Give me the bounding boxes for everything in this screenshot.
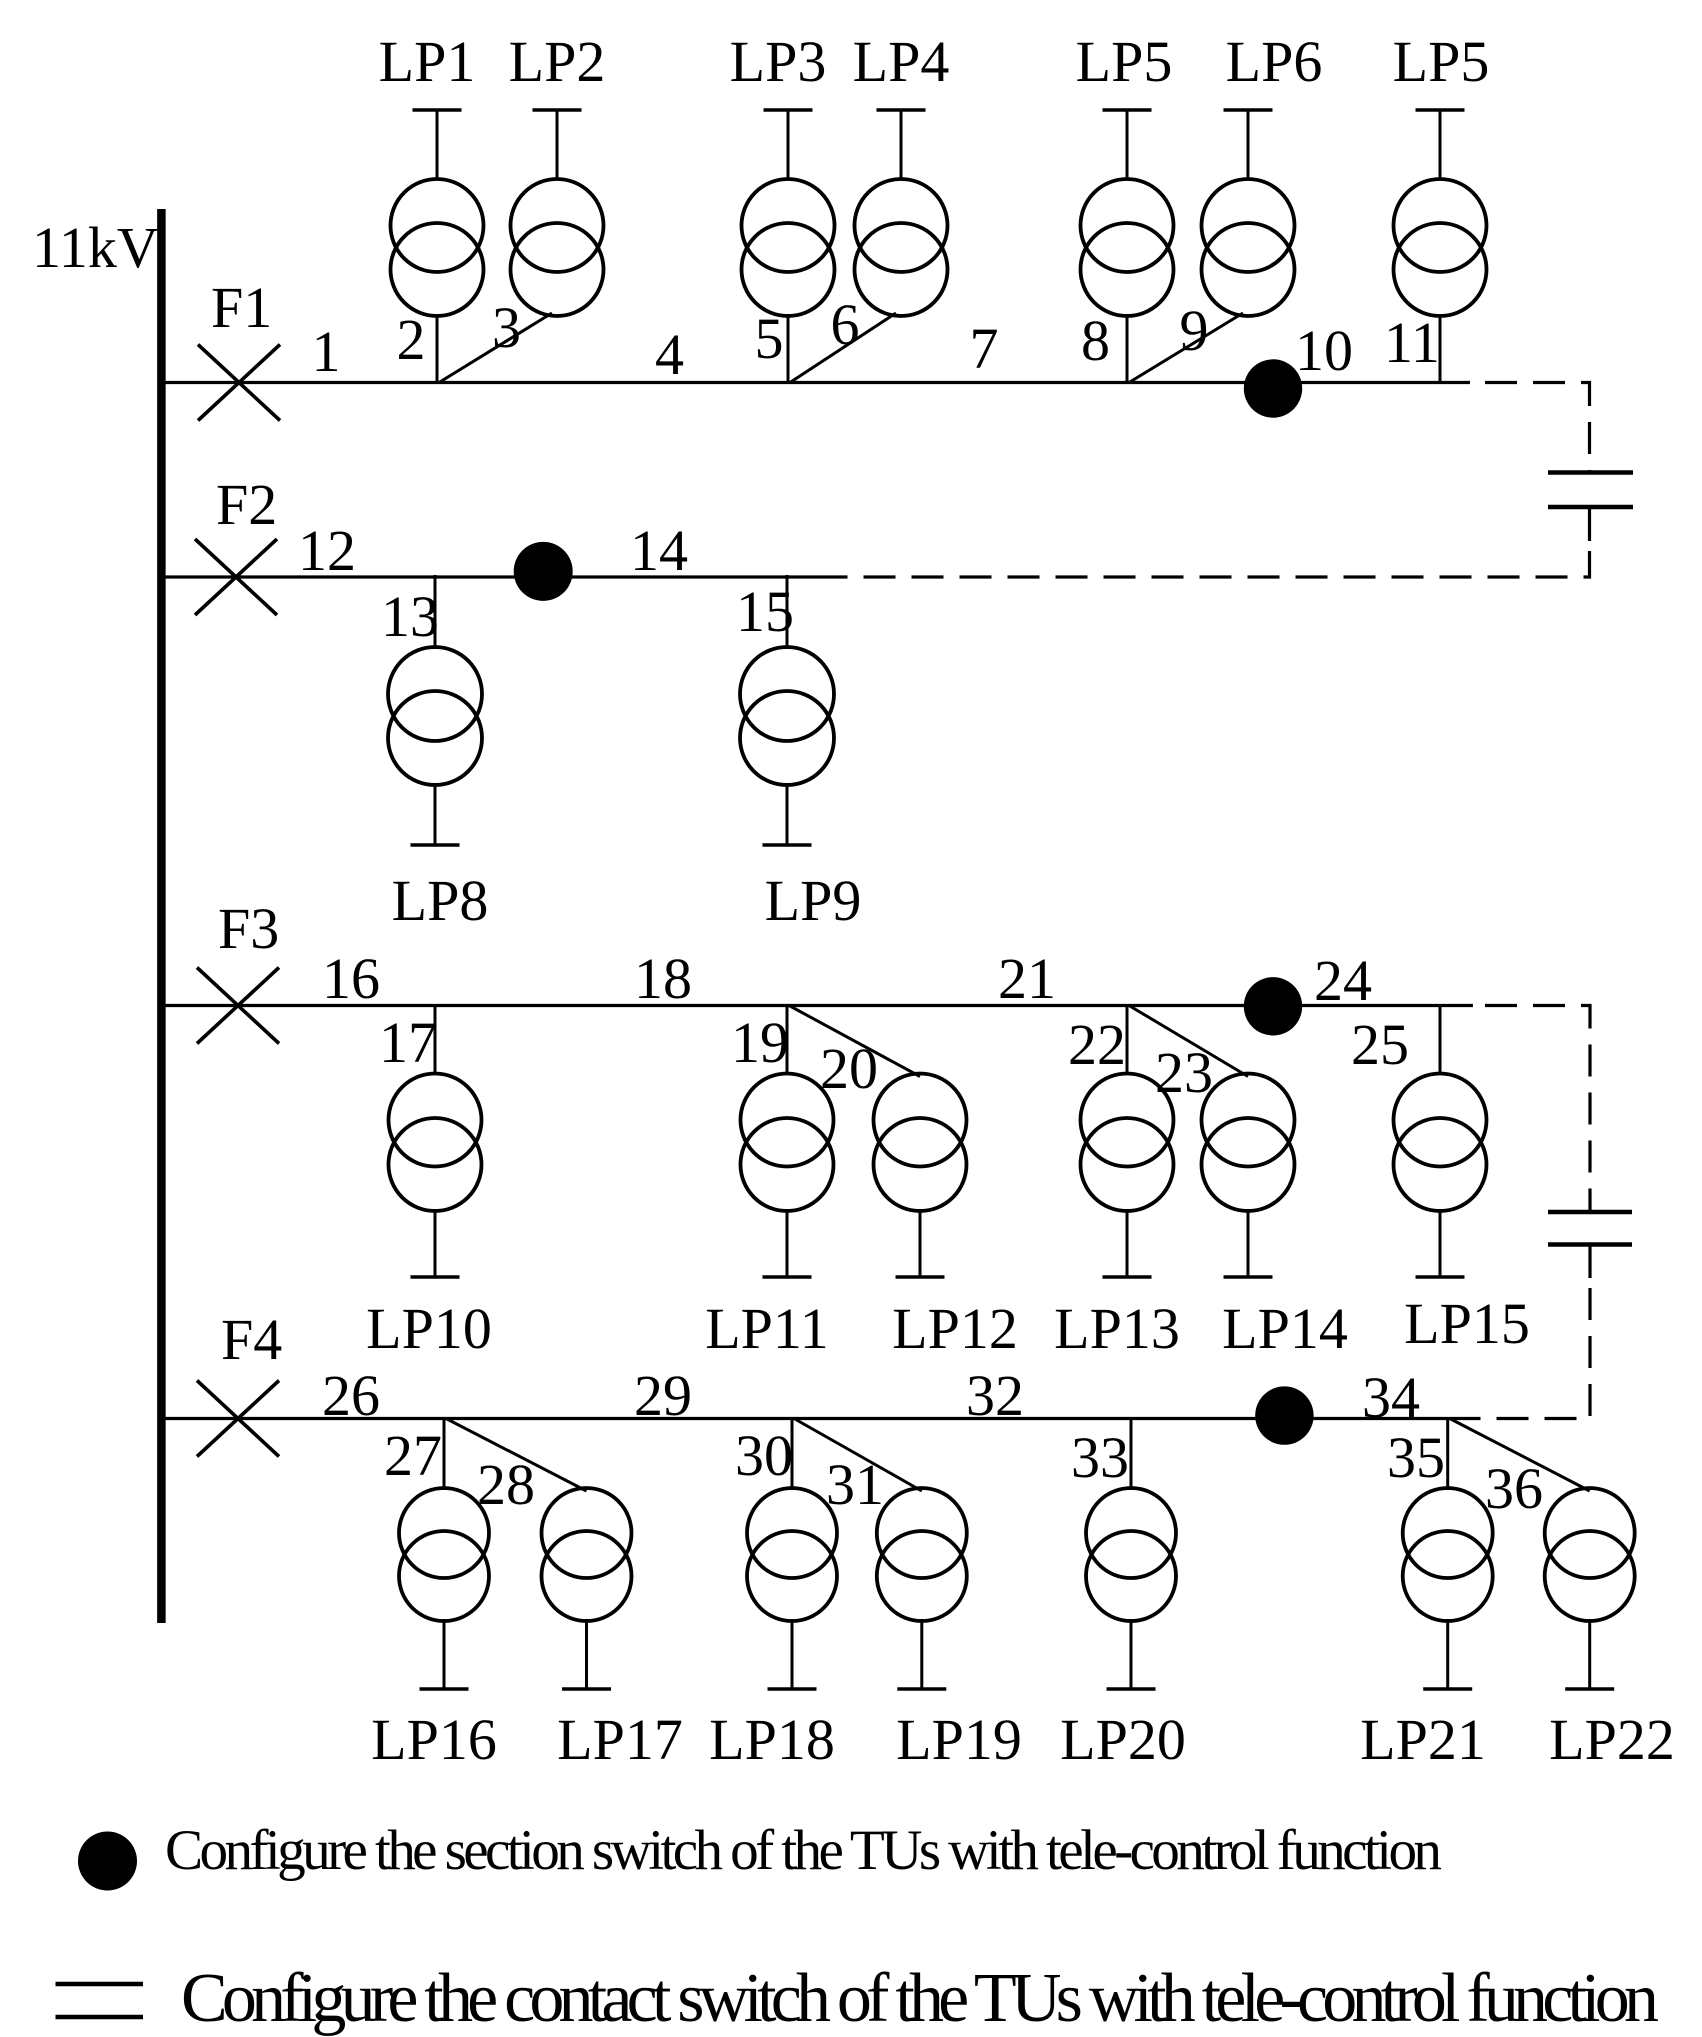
transformer LP16: [399, 1488, 489, 1621]
transformer LP2: [511, 179, 604, 316]
svg-text:36: 36: [1485, 1456, 1543, 1521]
load bar LP5 (right): [1416, 110, 1465, 179]
label LP5: [1076, 29, 1173, 94]
node label 24: [1314, 948, 1372, 1013]
node label 26: [322, 1363, 380, 1428]
svg-text:24: 24: [1314, 948, 1372, 1013]
transformer LP1: [391, 179, 484, 316]
label LP12: [892, 1296, 1018, 1361]
wire stub below contact switch F3-F4: [1588, 1245, 1591, 1279]
svg-text:F2: F2: [216, 472, 277, 537]
label LP22: [1549, 1707, 1675, 1772]
transformer LP19: [877, 1488, 967, 1621]
load bar LP12: [896, 1209, 945, 1277]
transformer LP5 (right): [1394, 179, 1487, 316]
svg-text:LP8: LP8: [392, 868, 489, 933]
node label 1: [312, 319, 341, 384]
section switch dot on F2: [514, 542, 573, 601]
section switch dot on F4 (node 34): [1255, 1386, 1313, 1444]
svg-text:2: 2: [397, 307, 426, 372]
wire branch to LP2: [439, 313, 552, 383]
svg-text:LP20: LP20: [1060, 1707, 1186, 1772]
svg-text:LP21: LP21: [1360, 1707, 1486, 1772]
svg-text:34: 34: [1362, 1365, 1420, 1430]
svg-text:3: 3: [492, 295, 521, 360]
node label 28: [477, 1452, 535, 1517]
transformer LP15: [1394, 1074, 1487, 1212]
node label 15: [736, 579, 794, 644]
node label 27: [384, 1423, 442, 1488]
transformer LP12: [874, 1074, 967, 1212]
svg-text:5: 5: [755, 306, 784, 371]
svg-text:LP4: LP4: [853, 29, 950, 94]
wire feeder F1 trunk: [165, 381, 1470, 384]
node label 19: [731, 1010, 789, 1075]
svg-text:23: 23: [1155, 1040, 1213, 1105]
label F3: [218, 896, 279, 961]
svg-text:F4: F4: [221, 1307, 282, 1372]
label LP9: [765, 868, 862, 933]
transformer LP10: [389, 1074, 482, 1212]
svg-text:22: 22: [1068, 1012, 1126, 1077]
node label 9: [1180, 298, 1209, 363]
dashed tie wire from F3 end: [1473, 1006, 1590, 1212]
node label 33: [1071, 1425, 1129, 1490]
svg-text:35: 35: [1387, 1425, 1445, 1490]
node label 30: [735, 1423, 793, 1488]
wire tap to LP8: [434, 575, 437, 649]
wire tap to LP5 (right): [1439, 314, 1442, 384]
load bar LP11: [763, 1209, 812, 1277]
svg-text:18: 18: [634, 946, 692, 1011]
svg-text:14: 14: [630, 518, 688, 583]
svg-text:21: 21: [998, 946, 1056, 1011]
label LP18: [709, 1707, 835, 1772]
node label 7: [970, 316, 999, 381]
node label 36: [1485, 1456, 1543, 1521]
label LP21: [1360, 1707, 1486, 1772]
transformer LP5: [1081, 179, 1174, 316]
node label 4: [655, 322, 684, 387]
svg-text:LP10: LP10: [366, 1296, 492, 1361]
svg-text:26: 26: [322, 1363, 380, 1428]
bus bar 11kV: [157, 209, 166, 1623]
svg-text:9: 9: [1180, 298, 1209, 363]
svg-text:4: 4: [655, 322, 684, 387]
wire tap to LP9: [786, 575, 789, 649]
node label 18: [634, 946, 692, 1011]
svg-text:17: 17: [379, 1010, 437, 1075]
wire tap to LP21: [1446, 1417, 1449, 1490]
svg-text:LP9: LP9: [765, 868, 862, 933]
svg-text:25: 25: [1351, 1012, 1409, 1077]
wire feeder F3 trunk: [165, 1004, 1473, 1007]
svg-text:30: 30: [735, 1423, 793, 1488]
node label 2: [397, 307, 426, 372]
wire tap to LP13: [1126, 1004, 1129, 1075]
node label 13: [381, 584, 439, 649]
svg-text:LP3: LP3: [730, 29, 827, 94]
wire tap to LP15: [1439, 1004, 1442, 1075]
node label 22: [1068, 1012, 1126, 1077]
svg-text:LP17: LP17: [557, 1707, 683, 1772]
section switch dot on F1 (node 10): [1244, 359, 1302, 417]
load bar LP18: [768, 1619, 817, 1689]
transformer LP6: [1202, 179, 1295, 316]
svg-text:13: 13: [381, 584, 439, 649]
load bar LP4: [877, 110, 926, 179]
node label 11: [1384, 310, 1440, 375]
label LP10: [366, 1296, 492, 1361]
svg-text:F3: F3: [218, 896, 279, 961]
transformer LP14: [1202, 1074, 1295, 1212]
svg-text:LP5: LP5: [1076, 29, 1173, 94]
svg-text:15: 15: [736, 579, 794, 644]
svg-text:32: 32: [966, 1363, 1024, 1428]
transformer LP22: [1545, 1488, 1635, 1621]
breaker F4: [197, 1381, 279, 1457]
svg-text:7: 7: [970, 316, 999, 381]
load bar LP8: [411, 783, 460, 845]
node label 25: [1351, 1012, 1409, 1077]
label LP14: [1222, 1296, 1348, 1361]
label LP11: [705, 1296, 829, 1361]
wire tap to LP18: [791, 1417, 794, 1490]
transformer LP17: [542, 1488, 632, 1621]
node label 34: [1362, 1365, 1420, 1430]
svg-text:LP2: LP2: [509, 29, 606, 94]
node label 31: [826, 1452, 884, 1517]
svg-text:12: 12: [298, 518, 356, 583]
label LP15: [1404, 1291, 1530, 1356]
svg-text:LP13: LP13: [1054, 1296, 1180, 1361]
wire tap to LP20: [1130, 1417, 1133, 1490]
wire tap to LP3: [787, 314, 790, 384]
transformer LP13: [1081, 1074, 1174, 1212]
transformer LP4: [855, 179, 948, 316]
breaker F3: [197, 968, 279, 1044]
node label 35: [1387, 1425, 1445, 1490]
node label 23: [1155, 1040, 1213, 1105]
label F1: [211, 275, 272, 340]
transformer LP21: [1403, 1488, 1493, 1621]
svg-text:29: 29: [634, 1363, 692, 1428]
svg-text:10: 10: [1295, 318, 1353, 383]
wire branch to LP12: [789, 1006, 920, 1077]
wire branch to LP14: [1129, 1006, 1248, 1077]
svg-text:8: 8: [1081, 308, 1110, 373]
svg-text:19: 19: [731, 1010, 789, 1075]
wire feeder F4 trunk: [165, 1417, 1448, 1420]
svg-text:LP18: LP18: [709, 1707, 835, 1772]
svg-text:33: 33: [1071, 1425, 1129, 1490]
contact switch F3-F4 (plates): [1548, 1212, 1632, 1245]
node label 10: [1295, 318, 1353, 383]
label LP13: [1054, 1296, 1180, 1361]
breaker F1: [198, 345, 280, 421]
dashed tie wire to F4 end: [1448, 1278, 1590, 1419]
wire branch to LP4: [790, 313, 896, 383]
svg-text:LP15: LP15: [1404, 1291, 1530, 1356]
svg-text:LP19: LP19: [896, 1707, 1022, 1772]
svg-text:LP1: LP1: [379, 29, 476, 94]
wire branch to LP22: [1450, 1419, 1590, 1492]
wire tap to LP11: [786, 1004, 789, 1075]
legend contact switch symbol: [56, 1984, 144, 2017]
label F2: [216, 472, 277, 537]
wire branch to LP17: [446, 1419, 587, 1492]
breaker F2: [195, 539, 277, 615]
label LP19: [896, 1707, 1022, 1772]
label LP4: [853, 29, 950, 94]
node label 6: [831, 292, 860, 357]
wire tap to LP1: [436, 314, 439, 384]
load bar LP3: [764, 110, 813, 179]
svg-text:F1: F1: [211, 275, 272, 340]
label LP2: [509, 29, 606, 94]
label LP17: [557, 1707, 683, 1772]
dashed tie wire from F1 end: [1470, 383, 1590, 472]
label LP20: [1060, 1707, 1186, 1772]
contact switch F1-F2 (plates): [1548, 473, 1633, 508]
load bar LP2: [533, 110, 582, 179]
svg-text:LP6: LP6: [1226, 29, 1323, 94]
svg-text:31: 31: [826, 1452, 884, 1517]
svg-text:6: 6: [831, 292, 860, 357]
label LP16: [371, 1707, 497, 1772]
svg-text:11: 11: [1384, 310, 1440, 375]
node label 20: [820, 1036, 878, 1101]
load bar LP21: [1423, 1619, 1472, 1689]
legend text: contact switch: [181, 1960, 1659, 2037]
label LP6: [1226, 29, 1323, 94]
load bar LP19: [897, 1619, 946, 1689]
load bar LP17: [562, 1619, 611, 1689]
load bar LP9: [763, 783, 812, 845]
node label 12: [298, 518, 356, 583]
load bar LP15: [1416, 1209, 1465, 1277]
load bar LP1: [413, 110, 462, 179]
node label 17: [379, 1010, 437, 1075]
svg-text:20: 20: [820, 1036, 878, 1101]
node label 16: [322, 946, 380, 1011]
load bar LP10: [411, 1209, 460, 1277]
load bar LP13: [1103, 1209, 1152, 1277]
load bar LP22: [1565, 1619, 1614, 1689]
load bar LP5: [1103, 110, 1152, 179]
label LP8: [392, 868, 489, 933]
svg-text:LP11: LP11: [705, 1296, 829, 1361]
wire tap to LP16: [443, 1417, 446, 1490]
label LP3: [730, 29, 827, 94]
section switch dot on F3 (node 24): [1244, 977, 1302, 1035]
label 11kV: [32, 215, 159, 280]
node label 8: [1081, 308, 1110, 373]
node label 3: [492, 295, 521, 360]
svg-text:1: 1: [312, 319, 341, 384]
node label 32: [966, 1363, 1024, 1428]
label F4: [221, 1307, 282, 1372]
node label 14: [630, 518, 688, 583]
wire stub below contact switch F1-F2: [1588, 507, 1591, 541]
load bar LP20: [1107, 1619, 1156, 1689]
node label 5: [755, 306, 784, 371]
load bar LP6: [1224, 110, 1273, 179]
svg-text:LP14: LP14: [1222, 1296, 1348, 1361]
legend section switch dot: [78, 1832, 137, 1891]
svg-text:16: 16: [322, 946, 380, 1011]
transformer LP9: [740, 647, 834, 785]
svg-text:LP12: LP12: [892, 1296, 1018, 1361]
transformer LP3: [742, 179, 835, 316]
dashed tie wire to F2 end: [833, 541, 1590, 577]
svg-text:LP5: LP5: [1393, 29, 1490, 94]
svg-text:Configure the contact switch o: Configure the contact switch of the TUs …: [181, 1960, 1659, 2037]
wire branch to LP19: [794, 1419, 922, 1492]
transformer LP20: [1086, 1488, 1176, 1621]
wire tap to LP5: [1126, 314, 1129, 384]
wire branch to LP6: [1129, 313, 1243, 383]
svg-text:11kV: 11kV: [32, 215, 159, 280]
transformer LP11: [741, 1074, 834, 1212]
node label 21: [998, 946, 1056, 1011]
svg-text:27: 27: [384, 1423, 442, 1488]
wire feeder F2 trunk: [165, 575, 833, 578]
label LP5 (right): [1393, 29, 1490, 94]
label LP1: [379, 29, 476, 94]
node label 29: [634, 1363, 692, 1428]
svg-text:LP16: LP16: [371, 1707, 497, 1772]
load bar LP14: [1224, 1209, 1273, 1277]
transformer LP18: [747, 1488, 837, 1621]
wire tap to LP10: [434, 1004, 437, 1075]
legend text: section switch: [165, 1819, 1442, 1882]
load bar LP16: [420, 1619, 469, 1689]
svg-text:LP22: LP22: [1549, 1707, 1675, 1772]
svg-text:Configure the section switch o: Configure the section switch of the TUs …: [165, 1819, 1442, 1882]
svg-text:28: 28: [477, 1452, 535, 1517]
transformer LP8: [388, 647, 482, 785]
